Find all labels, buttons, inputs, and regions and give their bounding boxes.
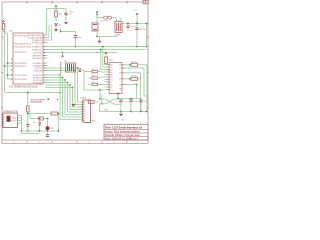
wire net GND rail horizontal y92.5 [5,92,61,94]
trimpot R6 (hatched box) [64,61,76,72]
IC1 right pin name labels [28,34,42,85]
svg-text:(PCINT16)PD0: (PCINT16)PD0 [14,52,26,54]
IC1 right pin stubs (wires) [43,35,48,83]
svg-text:D1: D1 [92,69,94,71]
wire D3 to IC3 [101,84,105,86]
text label below crossover [104,109,109,111]
svg-text:IC1: IC1 [9,31,13,33]
svg-text:VCC: VCC [134,10,138,12]
wire x58.5 drop [58,114,60,132]
IC1 left pin leads (red) [11,59,13,79]
wire right margin vertical x140.5 [130,73,141,112]
svg-text:16x2: 16x2 [92,121,96,123]
wire crossover RX/TX [99,90,121,105]
capacitor C6 electrolytic 10u [116,98,126,112]
wire net VBUS y23.5 [122,23,147,25]
svg-text:Author: Paul Sorensen (pablo): Author: Paul Sorensen (pablo) [105,129,140,133]
diode D1 (left of IC3) [89,69,102,73]
frame column/row divider ticks [1,1,149,144]
capacitor C9 (x27.8 lower) [26,125,29,131]
wire net RXD long horizontal y46.5 [45,46,146,48]
svg-text:22p: 22p [130,26,133,28]
node junction x27.8 y131 [27,130,29,132]
label IC1 name [9,31,13,33]
svg-text:X2: X2 [134,26,136,28]
svg-text:10u: 10u [123,101,126,103]
note GND label above title block [122,119,123,121]
svg-text:(PCINT19)PD3: (PCINT19)PD3 [14,66,26,68]
value label near right edge [143,29,146,31]
capacitor C3 (mid, near IC1) [60,29,82,47]
resistor R3 vertical (above IC3) [105,55,108,65]
title text: Title row [105,125,143,129]
wires PS1 outputs to rail [18,116,22,132]
wire branch down x27.8 [27,92,29,106]
value label for L1 [101,21,109,23]
svg-text:D5: D5 [33,122,35,124]
capacitor C7 100n [129,98,137,112]
power VCC symbol P7 (near crystal) [136,13,138,23]
wire net second rail y133.5 [22,131,40,134]
svg-text:Original: William Thomas dsgn: Original: William Thomas dsgn [105,133,141,137]
node junction at R1 bottom [4,31,6,33]
node junction RXD x137 [136,46,138,48]
svg-text:100n: 100n [69,12,73,14]
svg-text:(SCK)PB5: (SCK)PB5 [33,52,42,54]
wire LCD data bus staircase [43,67,83,119]
label IC3 name [109,60,113,62]
node junction x137 y23.5 [136,22,138,24]
diode D4 near trimpot [79,69,84,72]
ground GND1 below S1 [54,29,58,31]
svg-text:10k: 10k [59,13,62,15]
ground GND4 below bottom rail [119,112,123,116]
op-amp/driver IC3 body [109,63,122,94]
value label 100n for C2 [69,12,73,14]
resistor R2 vertical 10k [55,9,58,22]
diode D2 (left of IC3) [89,75,102,79]
wire X1 to junction [95,31,97,37]
svg-text:1: 1 [84,120,85,122]
node junction rail/bus x60 [59,92,61,94]
title block border [104,124,148,140]
node junction x21.5 y131 [21,130,23,132]
diode D5 vertical [33,118,41,132]
wire net mid rail y113.5 [27,113,51,115]
value label 16MHz for Q1 [114,34,120,36]
svg-text:Q0: Q0 [119,65,121,67]
capacitor C5 on x137 [135,24,142,47]
title text: Date row [105,136,139,140]
svg-text:L1 10uH: L1 10uH [101,21,109,23]
svg-text:PD4(XCK): PD4(XCK) [33,70,42,72]
svg-text:R5 1k: R5 1k [132,75,137,77]
svg-text:16MHz: 16MHz [114,34,120,36]
wire IC1 left pin stub y79 [8,78,14,80]
svg-text:C2: C2 [69,14,72,16]
wire net E-line y90 [84,72,105,91]
node junction C3 on net [75,46,77,48]
svg-text:100n: 100n [143,101,147,103]
svg-text:(PCINT18)PD2: (PCINT18)PD2 [14,63,26,65]
label POWER above PS1 [4,111,18,113]
LED LED1 (filled) [46,126,55,132]
wire net bottom rail y111.5 [100,111,147,113]
svg-text:(PCINT22)PD6: (PCINT22)PD6 [14,79,26,81]
capacitor C10 below rail [46,131,49,138]
power VCC symbol P4 (top middle) [96,11,98,14]
svg-text:Q0: Q0 [119,73,121,75]
svg-text:D3: D3 [92,82,94,84]
svg-text:g: g [97,52,98,54]
node dot near ISP [57,99,59,101]
crystal Q1 box [115,19,122,33]
wire right margin vertical x147 [146,65,148,112]
wire IC3 left feed x102.8 [102,46,105,67]
svg-text:(PCINT21)PD5: (PCINT21)PD5 [14,75,26,77]
power VCC symbol P1 (top-left) [2,21,4,24]
svg-text:PB7(XTAL2/TOSC2): PB7(XTAL2/TOSC2) [14,46,31,49]
wire net from R2 top to C2 [47,9,67,36]
sheet frame outer border [2,2,148,144]
value label 10k for R2 [59,13,62,15]
diode D3 (left of IC3) [89,82,102,86]
power VCC symbol P2 (reset pullup) [55,5,57,8]
svg-text:PC1(ADC1): PC1(ADC1) [32,45,42,48]
svg-text:IC2 ATMEGA8-16P DIL28: IC2 ATMEGA8-16P DIL28 [10,85,39,88]
power VCC symbol P5 above R3 [105,52,107,55]
switch S1 reset button [55,23,62,29]
node junction VCC x97 [96,14,98,16]
svg-text:Title: LCD Serial Interface v2: Title: LCD Serial Interface v2 [105,125,143,129]
svg-text:R4 1k: R4 1k [132,61,137,63]
svg-text:Q6: Q6 [119,79,121,81]
value label ATMEGA8 below IC1 [10,85,39,88]
svg-text:22p: 22p [143,29,146,31]
svg-text:+: + [71,36,73,38]
capacitor C2 100n [64,13,72,21]
node junctions on bottom rail [120,111,147,113]
label text right of J1 bottom [92,121,96,123]
wire VCC rail bottom right [118,95,141,98]
inductor L1 (fuse) top middle [97,16,116,19]
svg-text:g: g [122,119,123,121]
wire IC3 left feed x100.8 [100,49,105,70]
node junction x146.5 y23.5 [145,22,147,24]
svg-text:D2: D2 [92,75,94,77]
op-amp/mcu IC1 ATMEGA8 body [13,33,43,84]
title text: Original row [105,133,141,137]
node junction x97 y36.5 [96,36,98,38]
ground GND5 below bus [72,104,76,106]
capacitor C8 100n [139,99,147,112]
wire net bottom left rail y131 [22,130,59,132]
svg-text:S1: S1 [59,24,62,26]
node junction RXD x146.5 [146,46,148,48]
svg-text:+: + [116,100,118,102]
net label below nets left [97,52,98,54]
node junction x128 y23.5 [127,22,129,24]
regulator PS1 module box [2,113,18,128]
wire IC3 pin y84.5 to x136.5 [130,84,137,99]
wire IC1 left pin stub y75 [7,74,13,76]
IC3 right pins and stubs [122,65,130,85]
IC1 left pin name labels [14,35,31,81]
node junction at VCC/R2 top [55,8,57,10]
wire net y118.5 and resistor R8 [30,114,48,126]
svg-text:PD0(RXD): PD0(RXD) [33,82,42,84]
resistor R5 (right of IC3) [129,75,140,80]
resistor R1 (top-left vertical) [2,23,5,32]
resistor R10 (bottom, left of rail) [87,100,99,103]
IC3 left pins and stubs [105,64,114,91]
ground GND3 below X1 junction [98,37,102,43]
svg-text:IC3: IC3 [109,60,113,62]
svg-text:D10: D10 [110,89,113,91]
frame corner box top-right [143,1,148,4]
wire net y36.5 horizontal [97,36,118,38]
title text: Author row [105,129,140,133]
svg-text:PC2(ADC2): PC2(ADC2) [32,41,42,44]
power VCC symbol P6 (bottom right) [117,93,119,96]
ground GND2 below C2 [64,22,68,24]
svg-text:100n: 100n [133,101,137,103]
wire (red) bus lead to R6 [60,62,62,74]
svg-text:REG: REG [12,121,17,123]
connector J1 LCD header [82,100,91,123]
label ISP header strip [31,98,50,102]
svg-text:Q4: Q4 [119,84,121,86]
wire rail left rise [100,104,102,112]
wire left rail B vertical [5,33,8,79]
svg-text:LCD1: LCD1 [81,98,87,100]
resistor R9 horizontal [51,112,59,115]
wire VCC drop x97 [96,15,98,24]
connector X1 power jack [92,23,98,31]
power VCC symbol P3 (mid) [61,52,63,58]
wire D2 to IC3 [101,77,105,78]
IC3 right pin labels [119,65,121,91]
placeholder grey text near P7 [134,10,138,28]
wire IC1 upper-right risers [48,25,52,40]
svg-text:POWER 5V IN: POWER 5V IN [4,111,18,113]
svg-text:D4: D4 [82,70,84,72]
svg-text:R6: R6 [64,61,67,63]
wire IC1 left pin stub y66 [4,65,13,67]
svg-text:10u: 10u [78,37,81,39]
svg-text:PB6(XTAL1/TOSC1): PB6(XTAL1/TOSC1) [14,43,31,46]
resistor R7 vertical (x27.8) [27,106,30,124]
wire left rail A vertical [4,32,6,93]
resistor R4 (right of IC3) [129,61,147,66]
frame column letters [13,141,139,144]
svg-text:Date: 2009-04-21 20:09 v1/1: Date: 2009-04-21 20:09 v1/1 [105,136,139,140]
wire right margin vertical x144 [130,68,147,96]
wire IC1 left pin stub y63 [7,62,13,64]
svg-text:Q4: Q4 [119,68,121,70]
label LCD above J1 [81,98,87,100]
svg-text:PC0(ADC0): PC0(ADC0) [32,48,42,51]
svg-text:(MOSI)PB3: (MOSI)PB3 [32,58,41,60]
wire D1 to IC3 [101,71,105,74]
svg-text:Q0: Q0 [119,88,121,90]
wire x146.5 drop to RXD net [146,24,148,47]
capacitor C4 on x128 [127,24,134,32]
wire net TXD long horizontal y49.5 [45,49,148,51]
wire net third control line y52.5 [45,52,118,54]
svg-text:LED: LED [50,128,54,130]
svg-text:GND: GND [104,109,109,111]
svg-text:7805: 7805 [12,118,16,120]
